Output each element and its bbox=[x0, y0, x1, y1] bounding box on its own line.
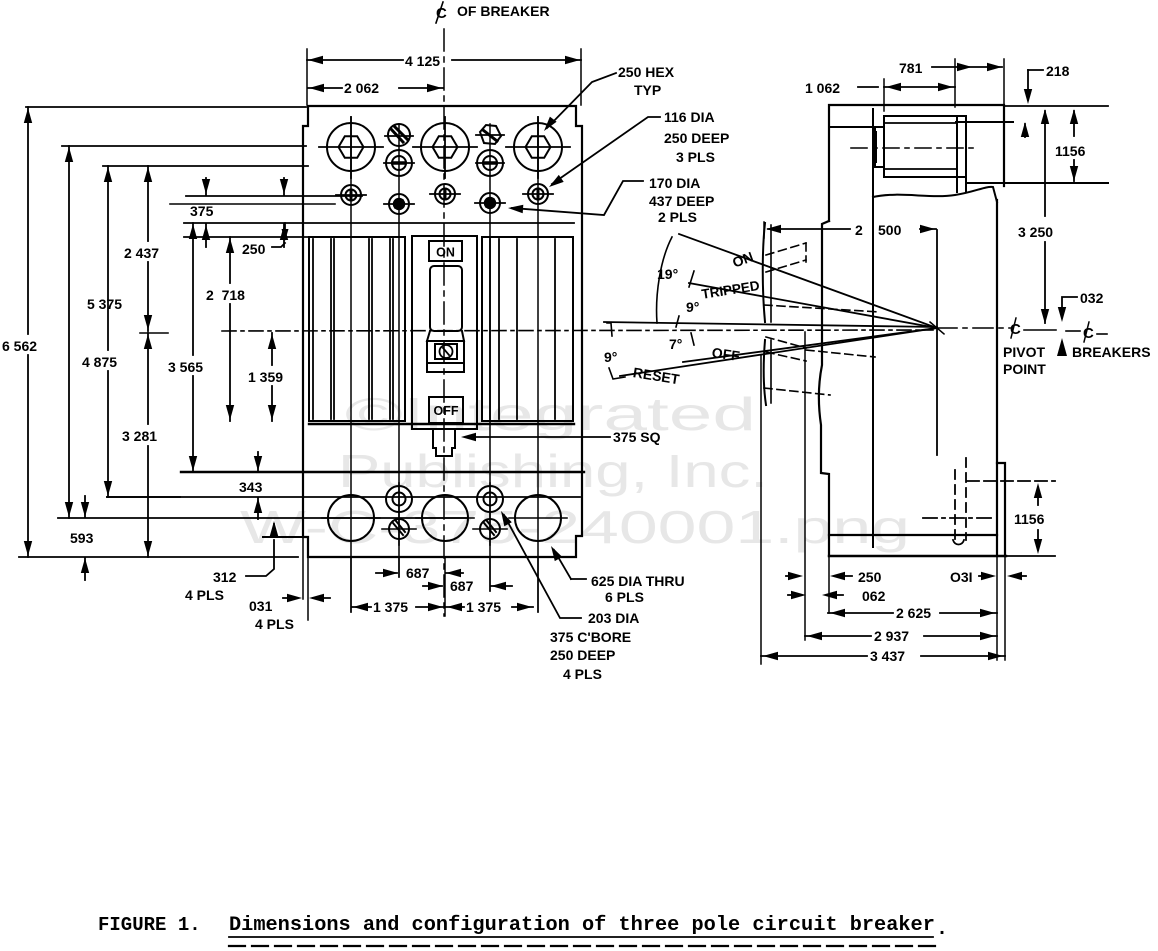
svg-text:4 875: 4 875 bbox=[82, 354, 117, 370]
callout 375 SQ bbox=[473, 436, 610, 438]
side view front foot bbox=[997, 463, 1005, 556]
terminal screw row line bbox=[186, 195, 362, 197]
bottom hole C (625 DIA) bbox=[515, 495, 561, 541]
dimension 343 bbox=[257, 452, 259, 471]
horizontal centerline of views (dash-dot) bbox=[222, 330, 933, 331]
ref dashed line 1156 top bbox=[967, 480, 1055, 482]
dimension 1 062 bbox=[883, 79, 885, 111]
breaker centerline (vertical dash-dot) bbox=[443, 29, 445, 616]
svg-text:593: 593 bbox=[70, 530, 94, 546]
svg-text:250 HEX: 250 HEX bbox=[618, 64, 675, 80]
svg-text:1 062: 1 062 bbox=[805, 80, 840, 96]
svg-text:6 PLS: 6 PLS bbox=[605, 589, 644, 605]
svg-text:375 SQ: 375 SQ bbox=[613, 429, 661, 445]
mounting hole dashed (side) bbox=[954, 470, 956, 545]
toggle switch module outline bbox=[412, 236, 477, 429]
small hex screw top between B-C bbox=[480, 125, 501, 144]
OFF label box bbox=[429, 397, 463, 423]
dimension 031 4 PLS bbox=[302, 472, 304, 599]
side view back edge bbox=[819, 221, 829, 556]
svg-text:625 DIA THRU: 625 DIA THRU bbox=[591, 573, 685, 589]
inner case line x937 bbox=[936, 230, 938, 455]
extension lines below breaker bbox=[350, 558, 352, 612]
svg-text:PIVOT: PIVOT bbox=[1003, 344, 1045, 360]
svg-text:OF BREAKER: OF BREAKER bbox=[457, 3, 550, 19]
left rib section bbox=[309, 237, 405, 421]
svg-text:BREAKERS: BREAKERS bbox=[1072, 344, 1151, 360]
toggle handle symbol bbox=[440, 345, 453, 358]
aux centerline x=399 bbox=[398, 124, 400, 577]
svg-text:4 125: 4 125 bbox=[405, 53, 440, 69]
svg-text:9°: 9° bbox=[686, 299, 699, 315]
svg-text:2 718: 2 718 bbox=[206, 287, 245, 303]
aux centerline x=490 bbox=[489, 124, 491, 591]
svg-text:031: 031 bbox=[249, 598, 273, 614]
svg-text:3 PLS: 3 PLS bbox=[676, 149, 715, 165]
extension lines bottom (side) bbox=[760, 355, 762, 664]
ref line rib top extension bbox=[184, 236, 310, 238]
svg-text:O3I: O3I bbox=[950, 569, 973, 585]
dimension 2 625 bbox=[828, 612, 893, 614]
svg-text:1 375: 1 375 bbox=[466, 599, 501, 615]
svg-text:1 375: 1 375 bbox=[373, 599, 408, 615]
svg-text:1156: 1156 bbox=[1014, 511, 1045, 527]
ref line 343 top bbox=[181, 471, 584, 473]
dimension 781 bbox=[954, 59, 956, 107]
svg-text:4 PLS: 4 PLS bbox=[255, 616, 294, 632]
svg-text:5 375: 5 375 bbox=[87, 296, 122, 312]
toggle handle lower strip bbox=[427, 363, 464, 372]
tick at centerline left end bbox=[607, 323, 612, 336]
side view outline top bbox=[829, 105, 1004, 221]
bottom hole A (625 DIA) bbox=[328, 495, 374, 541]
svg-text:062: 062 bbox=[862, 588, 886, 604]
svg-text:3 250: 3 250 bbox=[1018, 224, 1053, 240]
pole centerline left (vertical) bbox=[350, 117, 352, 612]
ref line top edge extension bbox=[26, 106, 306, 108]
svg-text:250 DEEP: 250 DEEP bbox=[664, 130, 729, 146]
dimension 6 562 bbox=[27, 107, 29, 334]
bottom hole B (625 DIA) bbox=[422, 495, 468, 541]
svg-text:2 437: 2 437 bbox=[124, 245, 159, 261]
terminal screw row line lower bbox=[170, 203, 335, 205]
dimension 4 125 bbox=[306, 49, 308, 105]
dimension 593 bbox=[84, 496, 86, 517]
svg-text:Dimensions and configuration o: Dimensions and configuration of three po… bbox=[229, 914, 935, 937]
svg-text:203 DIA: 203 DIA bbox=[588, 610, 639, 626]
handle line RESET bbox=[620, 328, 937, 376]
line terminal lug B circle with hex socket bbox=[421, 123, 469, 171]
terminal screw 3 (116 DIA) bbox=[528, 184, 548, 204]
ref line y166 bbox=[103, 165, 308, 167]
dimension 3 565 bbox=[192, 223, 194, 355]
svg-text:250: 250 bbox=[858, 569, 882, 585]
terminal screw 2 (116 DIA) bbox=[435, 184, 455, 204]
svg-text:1 359: 1 359 bbox=[248, 369, 283, 385]
svg-text:687: 687 bbox=[450, 578, 474, 594]
caption underline artifacts bbox=[229, 945, 941, 947]
svg-text:170 DIA: 170 DIA bbox=[649, 175, 700, 191]
handle line OFF bbox=[683, 328, 937, 362]
line terminal lug C circle with hex socket bbox=[514, 123, 562, 171]
svg-text:ON: ON bbox=[436, 246, 455, 260]
svg-text:3 281: 3 281 bbox=[122, 428, 157, 444]
cover front face line bbox=[872, 109, 874, 547]
svg-text:TYP: TYP bbox=[634, 82, 661, 98]
front view breaker outline bbox=[303, 106, 582, 557]
svg-text:OFF: OFF bbox=[434, 404, 459, 418]
toggle handle bbox=[427, 341, 464, 363]
ON label box bbox=[429, 241, 462, 261]
terminal lug left cap bbox=[875, 127, 884, 167]
dimension 1 359 bbox=[271, 333, 273, 365]
counterbore screw (203 DIA) bbox=[386, 486, 412, 512]
svg-text:2 PLS: 2 PLS bbox=[658, 209, 697, 225]
screw 5 (170 DIA) bbox=[480, 193, 500, 213]
terminal bracket right bbox=[956, 116, 958, 192]
dimension 4 875 bbox=[107, 166, 109, 350]
load terminal screw row line bbox=[107, 496, 580, 498]
ref line lug row bbox=[62, 145, 306, 147]
dimension 3 281 bbox=[147, 333, 149, 424]
ref line breaker bottom extension bbox=[19, 556, 298, 558]
breaker mid horizontal line upper bbox=[184, 222, 574, 224]
toggle handle bevel bbox=[427, 331, 464, 341]
svg-text:4 PLS: 4 PLS bbox=[563, 666, 602, 682]
bottom edge extension right (side) bbox=[1006, 555, 1055, 557]
dimension 687 first bbox=[376, 572, 397, 574]
hatched screw bbox=[480, 519, 500, 539]
dimension 062 bbox=[791, 591, 806, 599]
line terminal lug A circle with hex socket bbox=[327, 123, 375, 171]
dimension 2 437 bbox=[147, 166, 149, 241]
svg-text:1156: 1156 bbox=[1055, 143, 1086, 159]
handle line TRIPPED bbox=[689, 283, 937, 328]
svg-text:2 937: 2 937 bbox=[874, 628, 909, 644]
terminal block outline bbox=[884, 116, 966, 177]
right rib section bbox=[482, 237, 573, 421]
dimension 2 718 bbox=[229, 237, 231, 283]
terminal screw 1 (116 DIA) bbox=[341, 185, 361, 205]
side view bottom edge bbox=[829, 555, 1006, 557]
svg-text:375: 375 bbox=[190, 203, 214, 219]
pole centerline right (vertical) bbox=[537, 117, 539, 612]
dimension 250 bbox=[284, 223, 286, 230]
dimension 2 937 bbox=[805, 635, 871, 637]
terminal centerline bbox=[851, 147, 978, 149]
svg-text:116 DIA: 116 DIA bbox=[664, 109, 715, 125]
dimension 2 500 bbox=[763, 222, 765, 238]
side view front face bbox=[996, 200, 998, 556]
svg-text:©Integrated: ©Integrated bbox=[345, 388, 756, 440]
ring screw below it bbox=[386, 150, 412, 176]
dimension 375 arrows bbox=[205, 178, 207, 195]
svg-text:3 565: 3 565 bbox=[168, 359, 203, 375]
mounting tab below OFF bbox=[433, 429, 455, 456]
dimension 250 (side) bbox=[788, 572, 803, 580]
caption underline bbox=[229, 936, 933, 938]
svg-text:FIGURE 1.: FIGURE 1. bbox=[98, 914, 201, 936]
svg-text:2 625: 2 625 bbox=[896, 605, 931, 621]
handle line horizontal bbox=[604, 322, 937, 327]
front view bottom-left notch line bbox=[263, 536, 303, 538]
rib bottom edge line bbox=[309, 423, 574, 425]
case top wavy line bbox=[873, 187, 997, 202]
flange bottom line bbox=[968, 182, 1108, 184]
escutcheon front face bbox=[763, 223, 766, 405]
dimension 2 062 bbox=[308, 87, 342, 89]
dimension 1 375 left bbox=[352, 606, 371, 608]
ring screw below it bbox=[477, 150, 503, 176]
svg-text:781: 781 bbox=[899, 60, 923, 76]
handle dashed outline lower bbox=[766, 337, 806, 348]
dimension 1156 lower bbox=[1037, 489, 1039, 505]
handle dashed outline upper bbox=[766, 243, 806, 255]
svg-text:.: . bbox=[936, 918, 948, 941]
svg-text:218: 218 bbox=[1046, 63, 1070, 79]
handle line ON bbox=[679, 234, 937, 328]
svg-text:343: 343 bbox=[239, 479, 263, 495]
screw 4 (170 DIA) bbox=[389, 194, 409, 214]
svg-text:POINT: POINT bbox=[1003, 361, 1046, 377]
svg-text:375 C'BORE: 375 C'BORE bbox=[550, 629, 631, 645]
svg-text:312: 312 bbox=[213, 569, 237, 585]
counterbore screw (203 DIA) bbox=[477, 486, 503, 512]
dimension 5 375 bbox=[68, 146, 70, 518]
angle arc 19 deg bbox=[657, 237, 672, 323]
svg-text:032: 032 bbox=[1080, 290, 1104, 306]
terminal block inner lines bbox=[884, 122, 956, 124]
dimension 312 4 PLS bbox=[273, 524, 275, 537]
svg-text:250: 250 bbox=[242, 241, 266, 257]
top edge extension right bbox=[1004, 105, 1108, 107]
centerline right with CL symbols bbox=[937, 327, 1010, 329]
small screw top between A-B bbox=[388, 124, 410, 146]
cover top step line bbox=[829, 126, 873, 128]
top flange lip line bbox=[956, 121, 1013, 123]
svg-text:2 062: 2 062 bbox=[344, 80, 379, 96]
toggle slot bbox=[430, 266, 462, 331]
svg-text:6 562: 6 562 bbox=[2, 338, 37, 354]
hatched screw bbox=[389, 519, 409, 539]
dimension 687 second bbox=[423, 585, 442, 587]
ref line 4875 bottom bbox=[107, 496, 180, 498]
svg-text:500: 500 bbox=[878, 222, 902, 238]
dimension 1 375 right bbox=[446, 606, 464, 608]
svg-text:19°: 19° bbox=[657, 266, 678, 282]
svg-text:2: 2 bbox=[855, 222, 863, 238]
svg-text:7°: 7° bbox=[669, 336, 682, 352]
dimension 1156 upper bbox=[1073, 111, 1075, 136]
dimension 3 437 bbox=[761, 655, 867, 657]
svg-text:250 DEEP: 250 DEEP bbox=[550, 647, 615, 663]
svg-text:4 PLS: 4 PLS bbox=[185, 587, 224, 603]
svg-text:3 437: 3 437 bbox=[870, 648, 905, 664]
svg-text:9°: 9° bbox=[604, 349, 617, 365]
dimension 3 250 bbox=[1044, 111, 1046, 216]
svg-text:687: 687 bbox=[406, 565, 430, 581]
svg-text:437 DEEP: 437 DEEP bbox=[649, 193, 714, 209]
side view bottom inner line bbox=[829, 534, 997, 536]
ref line 5375 bottom bbox=[58, 517, 467, 519]
pivot point bbox=[930, 322, 944, 334]
